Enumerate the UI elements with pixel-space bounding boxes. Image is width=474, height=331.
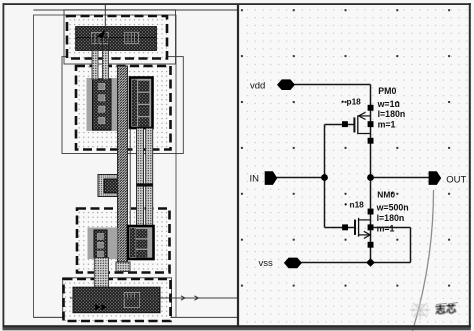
nmos source contacts — [98, 234, 104, 257]
vdd rail contact array 2 — [125, 32, 139, 43]
pmos source contacts — [99, 84, 105, 124]
vdd rail contact array 1 — [91, 33, 108, 44]
border top — [3, 3, 472, 5]
nmos source metal block — [94, 230, 107, 258]
wire nmos bulk loop top — [371, 227, 411, 229]
pin square nmos source — [368, 242, 374, 248]
schematic background — [240, 5, 470, 326]
watermark logo underline — [436, 303, 458, 305]
vdd strap left — [92, 50, 98, 79]
pin square pmos bulk — [368, 105, 374, 111]
junction diamond vss node — [366, 258, 375, 267]
nmos drain inner left strip — [130, 228, 136, 257]
svg-text:l=180n: l=180n — [378, 109, 406, 119]
svg-text:w=1u: w=1u — [377, 99, 400, 109]
pin square nmos drain — [368, 209, 374, 215]
vdd annotation line to cell top — [104, 5, 106, 38]
nwell dashed boundary (pmos) — [76, 66, 171, 150]
layout window frame bottom line — [34, 316, 239, 318]
port symbol vdd — [277, 79, 295, 90]
substrate tap dashed boundary (bottom) — [64, 279, 171, 321]
pmos source metal block — [93, 79, 112, 130]
wire nmos bulk loop right — [410, 228, 412, 263]
minor grid dots — [241, 6, 469, 324]
vss instance boundary R4 — [63, 278, 172, 318]
nwell tap dashed boundary (top) — [67, 16, 167, 59]
wire main vertical (vdd corner to vss junction) — [370, 85, 372, 263]
bullet p18 — [342, 101, 344, 103]
svg-text:vdd: vdd — [250, 80, 265, 91]
nmos drain contact squares — [137, 230, 148, 258]
border bottom — [3, 325, 471, 330]
wire input bus vertical — [324, 125, 326, 228]
wire vss horizontal — [301, 262, 371, 264]
bullet NM0 tick — [391, 192, 393, 194]
wire nmos gate — [325, 227, 356, 229]
junction dot OUT node — [367, 174, 374, 181]
nmos drain metal block — [128, 226, 154, 259]
vdd rail path centerline — [76, 37, 157, 39]
nmos gate bar — [354, 220, 356, 235]
poly gate vertical band — [118, 66, 128, 262]
vss rail metal bar — [73, 287, 160, 313]
svg-text:l=180n: l=180n — [377, 213, 405, 223]
svg-text:n18: n18 — [350, 199, 365, 209]
pmos implant gray region — [87, 78, 122, 131]
svg-text:NM0: NM0 — [377, 189, 395, 199]
layout window frame top line — [34, 9, 239, 11]
svg-text:vss: vss — [259, 258, 274, 269]
svg-text:w=500n: w=500n — [376, 203, 409, 213]
svg-text:m=1: m=1 — [378, 120, 396, 130]
pmos gate bar — [353, 117, 355, 132]
pin square pmos drain/mid — [368, 121, 374, 127]
poly band footer pad — [116, 262, 130, 272]
pwell stipple fill (nmos) — [77, 209, 170, 273]
vdd strap lines through rail — [92, 38, 109, 51]
watermark curve — [413, 190, 434, 331]
watermark logo text — [435, 302, 457, 316]
pin square nmos gate — [342, 224, 348, 230]
vdd strap right — [103, 50, 109, 79]
vss strap from nmos source — [94, 258, 108, 288]
nmos channel bar — [358, 218, 360, 237]
pmos drain lead — [358, 133, 371, 135]
nmos source lead — [359, 234, 371, 236]
wire IN horizontal — [277, 177, 325, 179]
wire pmos gate — [325, 124, 355, 126]
wire OUT horizontal — [371, 177, 430, 179]
pmos drain inner left strip — [132, 80, 137, 127]
vss rail contact array — [124, 292, 139, 307]
pmos drain contact squares — [139, 81, 150, 126]
cell boundary R1 — [34, 15, 177, 317]
pmos instance boundary R3 — [62, 57, 183, 154]
chevron marks on annotation line — [181, 296, 185, 300]
svg-text:IN: IN — [250, 174, 260, 185]
port symbol vss — [284, 258, 302, 269]
nmos source arrow — [364, 231, 370, 238]
svg-text:OUT: OUT — [446, 175, 466, 186]
pin square pmos gate — [342, 121, 348, 127]
nwell stipple fill (pmos) — [76, 66, 171, 150]
poly-metal via square outer — [98, 175, 124, 197]
pmos drain metal block — [130, 78, 153, 129]
svg-text:p18: p18 — [347, 96, 362, 106]
panel divider line — [237, 4, 239, 326]
pin square nmos bulk — [368, 224, 374, 230]
tick cross on dashed edge — [169, 295, 171, 301]
drain strap left — [137, 128, 144, 227]
pwell dashed boundary (nmos) — [77, 209, 170, 273]
wire nmos bulk loop bottom — [371, 262, 411, 264]
svg-text:PM0: PM0 — [378, 86, 396, 96]
vss path vertex arrows — [95, 304, 101, 310]
nwell tap region stipple fill (top) — [67, 16, 167, 59]
wire vdd horizontal — [294, 84, 371, 86]
poly-metal via square inner — [104, 179, 118, 193]
pmos channel bar — [357, 115, 359, 134]
top instance boundary R2 — [64, 10, 176, 64]
border left — [3, 3, 5, 327]
junction dot IN node — [321, 174, 328, 181]
bullet n18 — [345, 203, 347, 205]
watermark snowflake — [410, 300, 430, 320]
nmos implant gray region — [88, 228, 118, 260]
nmos drain lead — [359, 219, 371, 221]
border right — [469, 3, 471, 327]
op pmos transistor U: PM0 symbol — [354, 112, 370, 134]
drain net edge line — [129, 128, 131, 227]
nmos transistor NM0 symbol — [355, 218, 371, 239]
svg-text:m=1: m=1 — [377, 224, 395, 234]
vdd rail metal bar — [76, 27, 157, 51]
port symbol IN — [265, 171, 278, 185]
drain strap right — [146, 128, 153, 227]
pmos source arrow — [359, 112, 366, 119]
pmos source lead — [358, 115, 371, 117]
pin square pmos source-bottom — [368, 138, 374, 144]
drain strap via rung — [137, 183, 153, 186]
vss path centerline annotation to divider — [70, 297, 238, 299]
vdd path vertex arrow — [97, 30, 105, 39]
major grid dots — [240, 6, 470, 324]
port symbol OUT — [429, 171, 442, 185]
substrate tap stipple fill (bottom) — [64, 279, 171, 321]
